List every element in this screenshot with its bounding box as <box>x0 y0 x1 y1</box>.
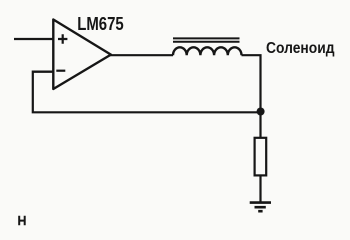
svg-text:Соленоид: Соленоид <box>266 40 335 57</box>
wire feedback run <box>33 72 261 113</box>
wire output <box>110 54 173 56</box>
inductor L1 solenoid <box>173 38 241 55</box>
wire node to resistor <box>259 112 261 138</box>
wire resistor to ground <box>259 175 261 201</box>
ground <box>250 203 271 212</box>
stray page text н <box>19 216 25 225</box>
node junction dot <box>257 108 265 116</box>
wire inductor to corner and down to node <box>242 55 261 112</box>
resistor R1 <box>255 138 267 176</box>
wire inverting input <box>32 70 54 72</box>
svg-text:LM675: LM675 <box>77 14 124 34</box>
wire noninverting input <box>14 38 54 40</box>
op-amp LM675 <box>53 20 111 90</box>
